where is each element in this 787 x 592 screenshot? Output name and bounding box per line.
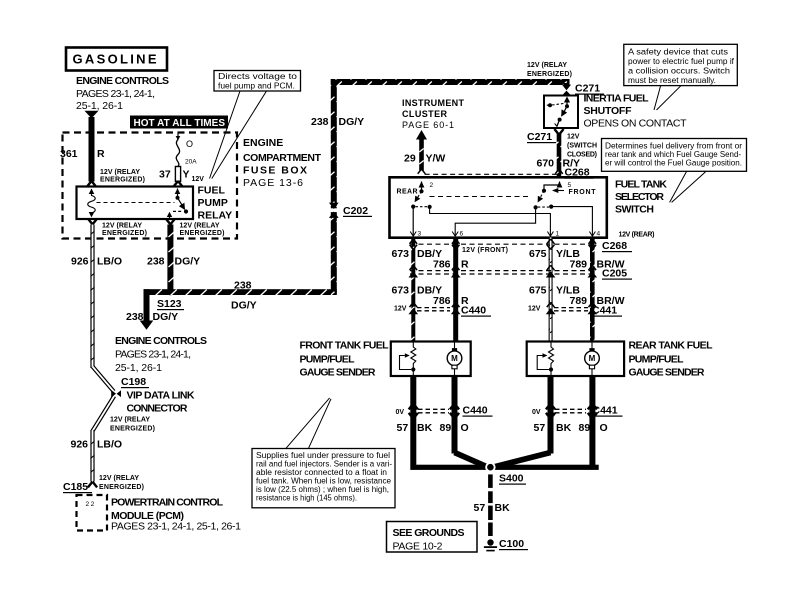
svg-text:PAGE 10-2: PAGE 10-2 — [393, 541, 443, 553]
wire 238 DG/Y horizontal from S123 — [144, 280, 337, 312]
REAR TANK FUEL PUMP/FUEL GAUGE SENDER label — [629, 340, 714, 379]
12V (RELAY ENERGIZED) label top right — [527, 62, 572, 78]
selector: bottom pin exit arrows — [410, 232, 595, 237]
svg-text:DG/Y: DG/Y — [153, 311, 179, 323]
connector C268 label (top) — [565, 167, 594, 179]
svg-text:RELAY: RELAY — [198, 209, 233, 221]
svg-text:89: 89 — [579, 422, 591, 434]
selector: pin number labels — [418, 182, 601, 238]
12V (RELAY ENERGIZED) label above relay — [100, 169, 145, 184]
wire 786 R (solid) — [433, 238, 469, 342]
wire 238 DG/Y relay to S123 — [147, 225, 200, 293]
svg-text:O: O — [186, 139, 193, 149]
svg-text:ENERGIZED): ENERGIZED) — [100, 177, 145, 184]
svg-text:57: 57 — [397, 422, 409, 434]
svg-text:ENERGIZED): ENERGIZED) — [527, 71, 572, 78]
svg-text:12V: 12V — [192, 176, 205, 183]
svg-text:(SWITCH: (SWITCH — [567, 143, 597, 150]
selector: internal dashed bus — [430, 196, 531, 198]
ground bus bar — [410, 465, 598, 470]
connector C198 label — [121, 376, 149, 388]
clamp of wire 29 at C268 — [418, 169, 426, 174]
svg-text:PAGES 23-1, 24-1,: PAGES 23-1, 24-1, — [115, 349, 191, 361]
VIP DATA LINK CONNECTOR label — [110, 390, 195, 433]
svg-text:Directs voltage to: Directs voltage to — [218, 72, 298, 81]
svg-text:C271: C271 — [527, 131, 552, 143]
svg-text:COMPARTMENT: COMPARTMENT — [243, 152, 322, 164]
splice S123 — [157, 289, 184, 311]
selector: pin 3 drop — [412, 207, 414, 236]
powertrain control module (PCM) dashed box — [77, 495, 108, 531]
svg-text:926: 926 — [71, 439, 89, 451]
connector C205 dashed lines — [410, 268, 632, 280]
svg-text:ENERGIZED): ENERGIZED) — [102, 230, 147, 237]
clamp of wire 361 at relay — [87, 181, 96, 187]
connector C198 mark — [111, 390, 121, 397]
svg-text:ENGINE CONTROLS: ENGINE CONTROLS — [76, 75, 169, 87]
selector: FRONT label with arrow — [552, 188, 596, 196]
svg-text:HOT AT ALL TIMES: HOT AT ALL TIMES — [134, 118, 226, 129]
clamp under relay (238) — [166, 219, 175, 225]
svg-text:926: 926 — [71, 256, 89, 268]
svg-text:PAGE 13-6: PAGE 13-6 — [243, 177, 303, 189]
connector C185 label — [63, 475, 144, 493]
wire 670 R/Y — [537, 134, 598, 178]
instrument cluster reference — [402, 98, 465, 130]
wire 57 BK (front, solid) — [410, 376, 416, 465]
svg-text:C100: C100 — [499, 538, 524, 550]
svg-text:238: 238 — [126, 311, 144, 323]
svg-text:12V (RELAY: 12V (RELAY — [180, 223, 220, 230]
svg-text:SEE GROUNDS: SEE GROUNDS — [393, 527, 465, 539]
svg-text:a collision occurs. Switch: a collision occurs. Switch — [628, 67, 730, 76]
svg-text:R: R — [97, 148, 105, 160]
HOT AT ALL TIMES banner — [130, 116, 228, 129]
svg-text:22: 22 — [86, 501, 96, 508]
svg-text:37: 37 — [159, 169, 171, 181]
svg-text:GAUGE SENDER: GAUGE SENDER — [300, 367, 376, 379]
svg-text:BK: BK — [495, 502, 511, 514]
svg-text:S123: S123 — [157, 298, 182, 310]
svg-text:PAGES 23-1, 24-1,: PAGES 23-1, 24-1, — [76, 88, 155, 100]
svg-text:C185: C185 — [63, 481, 88, 493]
svg-text:Y: Y — [183, 169, 190, 181]
ground symbol C100 — [484, 538, 528, 551]
svg-text:FRONT: FRONT — [569, 189, 597, 196]
POWERTRAIN CONTROL MODULE label — [111, 497, 241, 533]
rear fuel pump motor M — [585, 342, 600, 377]
relay switch — [167, 188, 188, 219]
SEE GROUNDS reference box — [387, 522, 478, 553]
svg-text:REAR: REAR — [397, 189, 418, 196]
relay internal dashed link — [97, 202, 175, 204]
wire 789 BR/W — [570, 238, 625, 342]
selector: pin 6 routing to right contact — [455, 205, 538, 236]
wire 29 Y/W with off-page arrow to cluster — [404, 130, 445, 171]
svg-text:ENERGIZED): ENERGIZED) — [110, 426, 155, 433]
svg-text:GAUGE SENDER: GAUGE SENDER — [629, 367, 705, 379]
svg-text:INERTIA FUEL: INERTIA FUEL — [584, 93, 650, 105]
svg-text:1: 1 — [556, 231, 560, 238]
engine compartment fuse box (dashed outline) — [63, 133, 238, 239]
svg-text:A safety device that cuts: A safety device that cuts — [628, 48, 728, 57]
svg-text:12V (RELAY: 12V (RELAY — [110, 417, 150, 424]
svg-text:SHUTOFF: SHUTOFF — [584, 105, 633, 117]
12V (RELAY ENERGIZED) below relay right — [180, 223, 225, 238]
svg-text:FUSE BOX: FUSE BOX — [243, 165, 307, 177]
svg-text:238: 238 — [234, 280, 252, 292]
clamps at C440/C441 upper — [409, 302, 598, 314]
wire labels 57 BK 89 O (front) — [397, 422, 469, 434]
fuse 37 20A — [159, 133, 204, 184]
svg-text:ENERGIZED): ENERGIZED) — [180, 230, 225, 237]
svg-text:238: 238 — [311, 116, 329, 128]
svg-text:3: 3 — [418, 231, 422, 238]
svg-text:4: 4 — [597, 231, 601, 238]
rear tank fuel pump / gauge sender box — [527, 342, 624, 377]
svg-text:675: 675 — [529, 285, 547, 297]
selector switch internals: pin 2 contact — [411, 181, 424, 209]
connector C440 dashed (above sender) — [394, 305, 491, 317]
wire 57 BK (rear, solid) — [494, 376, 554, 467]
svg-text:DG/Y: DG/Y — [339, 116, 365, 128]
svg-text:ENGINE CONTROLS: ENGINE CONTROLS — [115, 335, 207, 347]
clamps at C205 — [409, 265, 598, 277]
svg-text:25-1, 26-1: 25-1, 26-1 — [76, 100, 123, 112]
svg-text:675: 675 — [529, 248, 547, 260]
svg-text:673: 673 — [392, 285, 410, 297]
svg-text:673: 673 — [392, 248, 410, 260]
svg-text:789: 789 — [570, 295, 588, 307]
svg-text:O: O — [600, 422, 608, 434]
wire 57 BK to ground (dashed heavy) — [474, 474, 511, 536]
svg-text:C198: C198 — [121, 376, 146, 388]
svg-text:789: 789 — [570, 259, 588, 271]
svg-text:670: 670 — [537, 158, 555, 170]
FRONT TANK FUEL PUMP/FUEL GAUGE SENDER label — [300, 340, 390, 379]
svg-text:ENGINE: ENGINE — [243, 137, 283, 149]
wire 926 jog at C198 — [93, 367, 115, 432]
svg-text:238: 238 — [147, 256, 165, 268]
connector C268 dashed line (bottom) — [410, 240, 632, 252]
wire labels 57 BK 89 O (rear) — [534, 422, 608, 434]
svg-text:20A: 20A — [185, 159, 197, 166]
svg-text:ENERGIZED): ENERGIZED) — [99, 484, 144, 491]
fuel tank selector switch box — [390, 177, 607, 237]
inertia fuel shutoff switch box — [544, 96, 578, 129]
engine controls off-page reference (top-left) — [76, 75, 169, 112]
svg-text:resistance is high (145 ohms).: resistance is high (145 ohms). — [256, 494, 357, 503]
clamps at C268 bottom line — [410, 239, 597, 250]
clamp of wire 670 at C268 — [555, 169, 563, 174]
svg-text:786: 786 — [433, 259, 451, 271]
FUEL TANK SELECTOR SWITCH label — [615, 179, 667, 216]
svg-text:6: 6 — [460, 231, 464, 238]
connector C441 (below sender) — [532, 404, 623, 419]
svg-text:CONNECTOR: CONNECTOR — [127, 403, 188, 415]
svg-text:12V (RELAY: 12V (RELAY — [102, 223, 142, 230]
svg-text:M: M — [589, 354, 596, 363]
svg-text:0V: 0V — [532, 409, 541, 416]
svg-text:CLUSTER: CLUSTER — [402, 109, 448, 119]
svg-text:INSTRUMENT: INSTRUMENT — [402, 98, 465, 108]
svg-text:OPENS ON CONTACT: OPENS ON CONTACT — [584, 118, 688, 130]
selector: pin 5 contact — [538, 181, 563, 207]
relay coil — [88, 189, 96, 218]
clamp of fuse wire at relay — [173, 181, 182, 187]
off-page arrow into wire 361 — [85, 111, 99, 119]
svg-text:2: 2 — [430, 182, 434, 189]
connector C202 — [329, 203, 372, 218]
svg-text:O: O — [461, 422, 469, 434]
svg-text:12V: 12V — [528, 306, 541, 313]
svg-text:SELECTOR: SELECTOR — [615, 191, 664, 203]
svg-text:power to electric fuel pump if: power to electric fuel pump if — [628, 57, 735, 66]
connector C268 dashed line (top) — [425, 173, 557, 175]
inertia switch internals — [547, 96, 570, 126]
svg-text:12V: 12V — [567, 134, 580, 141]
clamp under relay (926) — [88, 219, 97, 225]
svg-text:C205: C205 — [602, 268, 627, 280]
rear sender variable resistor — [537, 342, 553, 377]
wire 238 DG/Y branch down to engine controls — [126, 289, 178, 330]
svg-text:R: R — [461, 259, 469, 271]
wire 926 LB/O (upper run) — [71, 225, 122, 369]
wire 89 O (rear, solid) — [589, 376, 595, 465]
svg-text:M: M — [451, 354, 458, 363]
svg-text:12V (RELAY: 12V (RELAY — [99, 475, 139, 482]
svg-text:29: 29 — [404, 153, 416, 165]
INERTIA FUEL SHUTOFF label — [584, 93, 688, 130]
svg-text:POWERTRAIN CONTROL: POWERTRAIN CONTROL — [111, 497, 224, 509]
splice S400 — [485, 462, 526, 485]
connector C440 (below sender) — [396, 404, 493, 419]
wire 361 R (solid) — [60, 117, 105, 182]
FUEL PUMP RELAY label — [198, 185, 233, 222]
selector: dashed link to lower contact — [416, 206, 428, 208]
GASOLINE title box — [66, 48, 167, 71]
selector: lower-right contact routing to pin 4 — [549, 205, 592, 237]
svg-text:DG/Y: DG/Y — [231, 300, 257, 312]
wire 673 DB/Y — [392, 238, 443, 342]
svg-text:BK: BK — [417, 422, 433, 434]
wire 89 O (front, solid) — [452, 376, 488, 467]
svg-text:25-1, 26-1: 25-1, 26-1 — [115, 362, 162, 374]
svg-text:PUMP: PUMP — [198, 197, 228, 209]
svg-text:57: 57 — [534, 422, 546, 434]
connector C441 dashed (above sender) — [528, 305, 622, 317]
svg-text:VIP DATA LINK: VIP DATA LINK — [127, 390, 195, 402]
svg-text:57: 57 — [474, 502, 486, 514]
selector: lower-left contact routing to pin 1 — [428, 205, 551, 236]
svg-text:FRONT TANK FUEL: FRONT TANK FUEL — [300, 340, 390, 352]
wire 238 DG/Y horizontal top run — [331, 79, 570, 85]
ENGINE COMPARTMENT FUSE BOX label — [243, 137, 322, 189]
svg-text:PAGES 23-1, 24-1, 25-1, 26-1: PAGES 23-1, 24-1, 25-1, 26-1 — [111, 521, 241, 533]
svg-text:must be reset manually.: must be reset manually. — [628, 76, 716, 85]
svg-text:PUMP/FUEL: PUMP/FUEL — [629, 354, 685, 366]
engine controls reference (middle-left) — [115, 335, 207, 374]
svg-text:FUEL: FUEL — [198, 185, 226, 197]
wire 238 DG/Y vertical loop up to top — [311, 79, 364, 295]
front tank fuel pump / gauge sender box — [391, 342, 471, 377]
front sender variable resistor — [400, 342, 416, 377]
svg-text:fuel pump and PCM.: fuel pump and PCM. — [218, 82, 295, 91]
svg-text:786: 786 — [433, 295, 451, 307]
svg-text:er will control the Fuel Gauge: er will control the Fuel Gauge position. — [605, 159, 742, 168]
svg-text:Y/W: Y/W — [426, 153, 446, 165]
svg-text:FUEL TANK: FUEL TANK — [615, 179, 667, 191]
svg-text:C440: C440 — [461, 305, 486, 317]
wire 675 Y/LB (hollow) — [529, 238, 580, 342]
svg-text:12V: 12V — [394, 306, 407, 313]
svg-text:0V: 0V — [396, 409, 405, 416]
front fuel pump motor M — [447, 342, 462, 377]
callout: supplies fuel note — [252, 398, 395, 508]
fuel pump relay box — [77, 187, 194, 220]
svg-text:C202: C202 — [343, 205, 368, 217]
callout: directs voltage to fuel pump and PCM — [210, 71, 301, 179]
callout: safety device note — [624, 44, 738, 110]
svg-text:LB/O: LB/O — [97, 439, 122, 451]
svg-text:C440: C440 — [463, 405, 488, 417]
svg-text:C268: C268 — [602, 240, 627, 252]
svg-text:GASOLINE: GASOLINE — [73, 52, 159, 67]
callout: determines fuel delivery note — [602, 139, 747, 203]
connector C271 (top clamp) — [562, 83, 604, 96]
svg-text:PAGE 60-1: PAGE 60-1 — [402, 120, 454, 130]
svg-text:PUMP/FUEL: PUMP/FUEL — [300, 354, 356, 366]
svg-text:SWITCH: SWITCH — [615, 204, 654, 216]
wire 926 LB/O (lower run) — [71, 430, 123, 482]
svg-text:BK: BK — [556, 422, 572, 434]
svg-text:LB/O: LB/O — [97, 256, 122, 268]
12V (RELAY ENERGIZED) below relay left — [102, 223, 147, 238]
svg-text:12V (RELAY: 12V (RELAY — [100, 169, 140, 176]
svg-text:DG/Y: DG/Y — [175, 256, 201, 268]
svg-text:REAR TANK FUEL: REAR TANK FUEL — [629, 340, 714, 352]
svg-text:12V (RELAY: 12V (RELAY — [527, 62, 567, 69]
connector C271 (bottom clamp) — [527, 129, 564, 143]
svg-text:89: 89 — [440, 422, 452, 434]
svg-text:5: 5 — [568, 182, 572, 189]
svg-text:12V (REAR): 12V (REAR) — [619, 232, 655, 239]
svg-text:S400: S400 — [499, 473, 524, 485]
svg-text:12V (FRONT): 12V (FRONT) — [462, 247, 508, 254]
clamp of wire 926 at C185 — [88, 482, 97, 488]
